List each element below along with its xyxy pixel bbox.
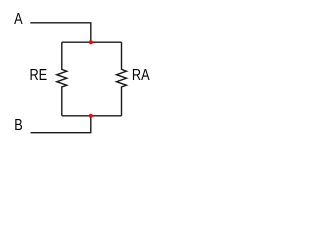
svg-text:RA: RA (132, 67, 150, 84)
svg-text:A: A (14, 11, 23, 28)
svg-text:B: B (14, 117, 22, 134)
svg-text:RE: RE (30, 67, 48, 84)
